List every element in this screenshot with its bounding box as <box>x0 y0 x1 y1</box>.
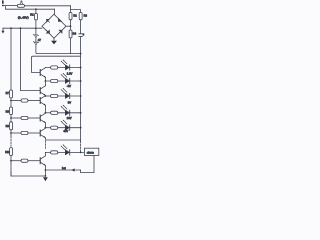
wire T2 collector <box>45 81 50 86</box>
fuse F1 <box>17 4 24 7</box>
resistor R1 <box>35 13 38 20</box>
capacitor C1 <box>79 34 83 37</box>
wire top corner down <box>71 6 81 13</box>
node bottom <box>45 175 47 177</box>
svg-text:R9: R9 <box>6 124 10 128</box>
resistor row5 <box>51 126 58 129</box>
resistor left chain 2 <box>10 107 13 115</box>
resistor left chain 4 <box>10 148 13 156</box>
transistor T3 <box>40 96 46 106</box>
wire zener to rail A <box>35 45 38 53</box>
base wire T4 <box>11 117 21 119</box>
wire base3 <box>28 100 40 102</box>
wire R2 stub <box>70 10 72 13</box>
svg-text:R1: R1 <box>30 13 34 17</box>
svg-text:R4: R4 <box>73 32 77 36</box>
LED D9 <box>61 88 70 99</box>
wire chain <box>10 115 12 122</box>
bus below capacitor <box>80 37 82 140</box>
alarm sense wire <box>46 139 81 141</box>
svg-text:R2: R2 <box>73 13 77 17</box>
wire T3 emitter to row4 <box>44 105 46 113</box>
node row2 <box>45 80 47 82</box>
node rail A bus <box>80 53 82 55</box>
node row4 <box>45 112 47 114</box>
svg-text:R10: R10 <box>5 151 10 154</box>
wire input AC to bridge left <box>3 27 42 29</box>
wire T2 emitter to row3 <box>44 94 46 97</box>
node divider tap 2 <box>10 117 12 119</box>
node row5 bus <box>80 127 82 129</box>
resistor base4 <box>21 116 28 119</box>
wire T3 collector <box>45 95 50 97</box>
wire T1 collector to row1 <box>45 67 50 69</box>
node row1 bus <box>80 67 82 69</box>
transistor T1 <box>40 68 46 78</box>
wire base4 <box>28 117 40 119</box>
node chain-AC <box>35 27 37 29</box>
wire chain <box>10 98 12 107</box>
wire row1 <box>58 67 81 69</box>
wire T1 emitter to row2 <box>44 77 46 81</box>
node row4 bus <box>80 112 82 114</box>
resistor row6 <box>51 151 58 154</box>
resistor R6 <box>51 79 58 82</box>
wire R3 down (bus top) <box>80 20 82 34</box>
dashed left chain <box>10 136 12 146</box>
zener D6 <box>33 41 38 45</box>
wire R1 to AC node <box>35 20 37 27</box>
wire R1 stub <box>35 9 37 13</box>
alarm loop wire <box>81 155 94 172</box>
svg-text:-5V: -5V <box>67 84 71 88</box>
LED D10 <box>61 105 70 116</box>
second vertical to Q2 base <box>21 28 40 90</box>
wire T5 collector <box>45 127 50 129</box>
svg-text:alarm: alarm <box>87 150 95 154</box>
resistor R5 <box>51 66 58 69</box>
wire chain <box>10 130 12 136</box>
rail A <box>37 53 81 55</box>
wire T4 collector <box>45 112 50 114</box>
svg-text:24V: 24V <box>67 116 72 120</box>
wire Q1 base path <box>32 57 40 72</box>
wire bridge right to node <box>66 25 71 27</box>
resistor R7 row3 <box>51 94 58 97</box>
diode lower-left <box>46 30 49 33</box>
wire row5 <box>58 127 81 129</box>
left bus down <box>10 28 12 90</box>
wire second line <box>6 7 55 10</box>
LED D7 <box>61 60 70 71</box>
resistor R11 (left chain 1) <box>10 90 13 98</box>
dashed emitter chain <box>44 138 46 150</box>
capacitor polarity mark <box>83 33 85 35</box>
transistor T6 <box>40 156 46 166</box>
wire R4 down to rail <box>70 38 72 54</box>
base wire T3 <box>11 100 21 102</box>
wire base6 <box>28 160 40 162</box>
ground <box>43 177 48 181</box>
input arrow terminal <box>2 28 4 31</box>
resistor R12 base3 <box>21 99 28 102</box>
node row6 bus <box>80 152 82 154</box>
svg-text:(0..48V): (0..48V) <box>18 15 29 19</box>
transistor T5 <box>40 128 46 138</box>
dashed bus to alarm <box>80 141 82 152</box>
svg-text:R3: R3 <box>84 13 88 17</box>
node divider tap 1 <box>10 100 12 102</box>
node row3 bus <box>80 95 82 97</box>
diode upper-right <box>58 18 61 21</box>
svg-text:R7: R7 <box>6 91 10 95</box>
zener chain wire <box>35 28 37 34</box>
node second vertical top <box>20 27 22 29</box>
wire chain <box>10 156 12 164</box>
resistor R2 <box>69 12 72 19</box>
wire fuse to top-right corner <box>25 5 71 7</box>
resistor R4 <box>69 30 72 38</box>
fuse indicator triangle <box>20 2 23 5</box>
node R1 top <box>35 8 37 10</box>
resistor base5 <box>21 131 28 134</box>
wire chain bottom corner <box>10 164 12 176</box>
wire input to fuse <box>4 5 18 7</box>
node left bus top <box>10 27 12 29</box>
wire row3 <box>58 95 81 97</box>
resistor left chain 3 <box>10 122 13 130</box>
wire T4 emitter to row5 <box>44 123 46 128</box>
alarm return wire <box>45 169 80 171</box>
bridge bottom arrow <box>53 38 55 40</box>
node divider tap 4 <box>10 160 12 162</box>
wire T6 emitter down <box>44 166 46 177</box>
node bridge+ <box>70 25 72 27</box>
base wire T5 <box>11 132 21 134</box>
svg-text:R8: R8 <box>6 109 10 113</box>
wire R2 down <box>70 20 72 30</box>
diode lower-right <box>59 30 62 33</box>
wire row6 <box>58 151 85 153</box>
resistor base6 <box>21 159 28 162</box>
input terminal top-left <box>2 0 4 6</box>
wire row4 <box>58 112 81 114</box>
node divider tap 3 <box>10 132 12 134</box>
node emitter-alarm <box>45 169 47 171</box>
wire bridge top drop <box>54 9 56 14</box>
LED D11 <box>61 120 70 131</box>
node row2 bus <box>80 80 82 82</box>
resistor row4 <box>51 111 58 114</box>
svg-text:9V: 9V <box>68 101 71 105</box>
rail B <box>32 56 81 57</box>
svg-text:47: 47 <box>38 38 42 42</box>
transistor T4 <box>40 113 46 123</box>
wire T6 collector <box>45 152 50 156</box>
wire base5 <box>28 132 40 134</box>
resistor R3 <box>79 12 82 19</box>
bus corner to dashed <box>80 140 82 141</box>
node row5 <box>45 127 47 129</box>
base wire T6 <box>11 160 21 162</box>
bridge rectifier D1-D4 <box>42 14 66 38</box>
zener D5 <box>33 34 38 38</box>
diode upper-left <box>46 19 49 22</box>
LED D8 <box>61 73 70 84</box>
svg-text:48V: 48V <box>63 129 68 133</box>
LED D12 <box>61 144 70 155</box>
wire row2 <box>58 80 81 82</box>
transistor T2 <box>40 86 46 96</box>
alarm box <box>84 148 98 155</box>
node row3 <box>45 95 47 97</box>
svg-text:bat: bat <box>62 166 66 170</box>
bottom rail <box>11 172 45 176</box>
svg-text:1.8V: 1.8V <box>67 72 73 76</box>
arrow on wire <box>71 168 74 171</box>
